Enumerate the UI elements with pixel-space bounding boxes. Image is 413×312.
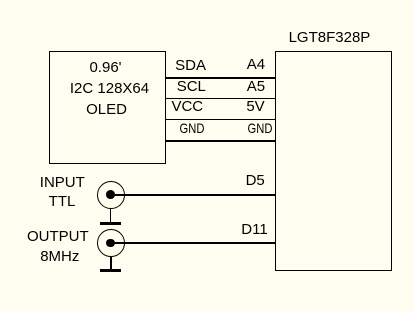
pin label SCL	[177, 79, 206, 94]
pin label SDA	[175, 58, 206, 73]
wire VCC to 5V	[165, 119, 275, 121]
pin label D5	[246, 173, 265, 188]
wire D11 from J2 to MCU	[111, 242, 276, 244]
connector J1 center pin dot	[106, 190, 115, 199]
pin label A5	[247, 79, 265, 94]
wire J2 shield to ground	[110, 257, 112, 270]
OLED value label 0.96'	[89, 60, 121, 75]
label OUTPUT	[27, 229, 89, 244]
wire J1 shield to ground	[110, 209, 112, 223]
wire GND to GND	[165, 140, 275, 142]
OLED value label OLED	[86, 102, 127, 117]
pin label GND right	[247, 121, 272, 135]
connector J1 input circle	[97, 181, 125, 209]
wire SDA to A4	[165, 77, 275, 79]
OLED value label I2C 128X64	[70, 81, 149, 96]
pin label 5V	[246, 99, 264, 114]
connector J2 center pin dot	[106, 239, 115, 248]
label 8MHz	[40, 249, 79, 264]
OLED display module box	[49, 51, 166, 164]
wire D5 from J1 to MCU	[111, 194, 276, 196]
label TTL	[49, 194, 76, 209]
wire SCL to A5	[165, 98, 275, 100]
label INPUT	[40, 175, 85, 190]
MCU U1 box LGT8F328P	[275, 51, 392, 271]
connector J2 output circle	[97, 229, 125, 257]
pin label GND left	[180, 121, 205, 135]
IC U1 label LGT8F328P	[289, 30, 371, 45]
pin label A4	[247, 57, 265, 72]
ground symbol for J1	[100, 222, 121, 225]
pin label D11	[241, 222, 267, 237]
ground symbol for J2	[100, 269, 121, 272]
pin label VCC	[171, 99, 203, 114]
